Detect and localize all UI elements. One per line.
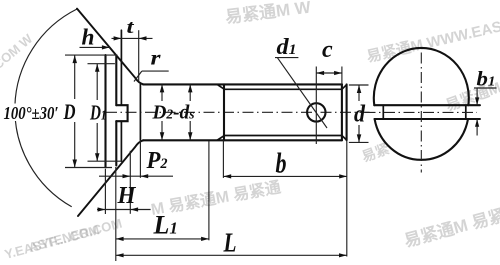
- head rim line V1 (diameter D): [104, 55, 106, 168]
- watermark row top right: [365, 16, 500, 66]
- svg-text:D: D: [63, 99, 76, 124]
- watermark circle right: [444, 79, 500, 115]
- slot floor edge left: [382, 105, 384, 119]
- head inner line V3 upper (t extension): [120, 30, 122, 105]
- svg-text:b: b: [276, 149, 287, 180]
- 100 degree angle arc: [15, 9, 77, 207]
- svg-text:c: c: [322, 37, 333, 63]
- head face line V2 upper: [115, 56, 117, 105]
- dimension P2: [129, 151, 131, 214]
- end face line: [346, 84, 348, 140]
- dimension D1: [88, 63, 115, 65]
- svg-text:易紧通M W: 易紧通M W: [224, 0, 313, 27]
- watermark bottom right: [402, 206, 500, 251]
- d1 label landing: [275, 57, 298, 59]
- watermark left lower: [3, 222, 101, 262]
- dimension L1: [115, 167, 117, 261]
- svg-text:100°±30′: 100°±30′: [4, 103, 59, 123]
- dimension d: [349, 84, 369, 86]
- svg-text:易紧通M 易紧: 易紧通M 易紧: [402, 206, 500, 251]
- dimension H: [104, 169, 106, 214]
- thread minor diameter top: [217, 85, 342, 90]
- slot floor edge right: [465, 105, 467, 119]
- cone-shank junction line: [139, 84, 141, 140]
- head inner line V3 lower: [120, 121, 122, 161]
- dimension t: [138, 30, 140, 81]
- svg-text:D1: D1: [89, 101, 106, 125]
- svg-text:D2-ds: D2-ds: [152, 102, 195, 124]
- cone extension ray upper (angle leg / cone surface): [77, 9, 144, 85]
- end chamfer diagonal bottom: [342, 136, 347, 140]
- right view horizontal centerline: [365, 111, 478, 113]
- label r with leader: [142, 70, 169, 72]
- dimension b: [222, 140, 224, 178]
- svg-text:P2: P2: [146, 148, 168, 174]
- dimension L: [346, 140, 348, 256]
- end chamfer line: [341, 84, 343, 140]
- watermark row top: [224, 0, 313, 27]
- hole vertical centerline: [315, 67, 317, 145]
- svg-text:r: r: [151, 46, 162, 70]
- svg-text:h: h: [82, 25, 95, 50]
- watermark bottom left 2: [27, 216, 124, 255]
- thread start line: [223, 84, 225, 140]
- leader for d1: [278, 58, 328, 128]
- slot notch in head: [116, 105, 127, 121]
- dimension h: [80, 46, 110, 48]
- dimension D2 line: [161, 84, 163, 101]
- dimension c: [341, 67, 343, 85]
- svg-text:d1: d1: [277, 34, 297, 59]
- axis centerline of screw: [106, 111, 370, 113]
- right view circle (head front view): [374, 48, 469, 105]
- svg-text:H: H: [117, 183, 137, 209]
- svg-text:M 易紧通M 易紧通: M 易紧通M 易紧通: [150, 178, 283, 219]
- svg-text:ASTENER.COM: ASTENER.COM: [27, 216, 124, 255]
- head face line V2 lower: [115, 121, 117, 165]
- thread minor diameter bottom: [217, 136, 342, 141]
- svg-text:易紧通M WWW.EASY: 易紧通M WWW.EASY: [365, 16, 500, 66]
- shank top outline: [143, 83, 342, 85]
- svg-text:b1: b1: [477, 67, 496, 91]
- shank bottom outline: [143, 139, 342, 141]
- cone extension ray lower (angle leg / cone surface): [78, 140, 144, 216]
- svg-text:d: d: [354, 102, 366, 128]
- end chamfer diagonal top: [342, 85, 347, 90]
- right view slot top line: [374, 104, 480, 106]
- watermark bottom center: [150, 178, 283, 219]
- svg-text:t: t: [127, 17, 135, 38]
- cross hole d1: [307, 103, 325, 121]
- dimension D: [65, 54, 117, 56]
- right view slot bottom line: [375, 118, 480, 120]
- dimension b1: [474, 87, 497, 89]
- watermark left edge: [0, 31, 36, 73]
- label 100 degrees: [2, 104, 60, 122]
- svg-text:L: L: [223, 228, 237, 258]
- dimension ds line: [189, 84, 191, 101]
- watermark circle left: [360, 140, 392, 165]
- right view vertical centerline: [420, 53, 422, 173]
